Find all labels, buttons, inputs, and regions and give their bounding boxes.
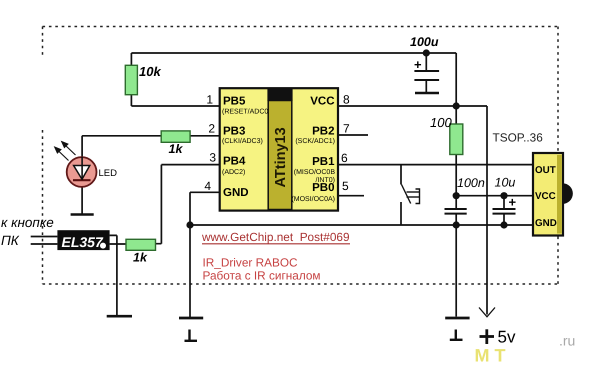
U1 center strip olive — [268, 101, 292, 210]
svg-text:6: 6 — [341, 151, 348, 165]
svg-text:IR_Driver RABOC: IR_Driver RABOC — [203, 256, 299, 270]
wire 10k bottom lead to pin1 — [131, 95, 219, 106]
svg-text:100: 100 — [430, 115, 452, 130]
svg-text:ATtiny13: ATtiny13 — [273, 127, 289, 187]
svg-text:к кнопке: к кнопке — [1, 215, 54, 230]
svg-text:100u: 100u — [410, 35, 439, 49]
svg-text:www.GetChip.net Post#069: www.GetChip.net Post#069 — [201, 230, 350, 244]
svg-text:PB1: PB1 — [312, 156, 335, 168]
U1 center strip black top — [267, 89, 292, 101]
node C3 top — [500, 192, 507, 199]
svg-text:EL357: EL357 — [62, 234, 104, 250]
resistor R1 10k — [125, 65, 137, 94]
svg-text:10k: 10k — [139, 64, 161, 79]
capacitor C1 100u plates — [414, 71, 439, 80]
IC U1 ATtiny13 body — [220, 88, 338, 210]
wire +5v drop — [486, 106, 488, 315]
wire TSOP VCC rail — [456, 195, 533, 197]
svg-text:PB4: PB4 — [223, 156, 246, 168]
U3 olive strip — [557, 155, 562, 234]
svg-text:5v: 5v — [498, 328, 516, 347]
wire VCC top rail — [131, 52, 456, 54]
wire pin8 VCC — [338, 105, 487, 107]
wire EL357 collector to 1k — [110, 243, 126, 245]
wire 100R bottom lead — [455, 155, 457, 196]
wire 100u top lead — [425, 53, 427, 93]
optocoupler U2 EL357 — [57, 230, 109, 250]
svg-text:8: 8 — [343, 93, 350, 107]
pushbutton S1 — [402, 185, 420, 204]
svg-text:PB2: PB2 — [312, 126, 334, 138]
node pin8 / 100R — [453, 102, 460, 109]
node 100R / C2 / TSOP VCC — [453, 192, 460, 199]
dashed enclosure border — [43, 27, 559, 285]
svg-text:TSOP..36: TSOP..36 — [493, 131, 544, 145]
wire 100n leads — [455, 196, 457, 225]
wire pin6 to TSOP OUT — [338, 164, 533, 166]
label +5v — [480, 329, 495, 344]
svg-text:10u: 10u — [495, 176, 516, 190]
U3 lens — [563, 183, 573, 204]
svg-text:OUT: OUT — [535, 165, 556, 176]
ground bar under 100u — [415, 92, 439, 95]
wire 10u leads — [503, 196, 505, 225]
svg-text:+: + — [509, 195, 517, 210]
svg-text:4: 4 — [204, 179, 211, 193]
svg-text:2: 2 — [208, 122, 215, 136]
resistor R2 1k (LED) — [161, 131, 190, 142]
svg-text:1: 1 — [206, 93, 213, 107]
wire switch lower lead — [400, 202, 402, 225]
wire 10k top lead — [130, 53, 132, 65]
junction node dots — [186, 49, 507, 228]
svg-text:100n: 100n — [457, 176, 485, 190]
wire 100n ground drop — [455, 225, 457, 317]
node C2 / ground bus — [453, 221, 460, 228]
svg-text:(SCK/ADC1): (SCK/ADC1) — [295, 137, 335, 145]
svg-text:ПК: ПК — [1, 233, 20, 248]
wire pin2 to LED — [82, 136, 220, 215]
svg-text:1k: 1k — [133, 251, 148, 265]
svg-text:.ru: .ru — [559, 333, 575, 349]
svg-text:LED: LED — [99, 168, 118, 179]
node pin4 / ground bus — [186, 221, 193, 228]
wire 100R top lead — [455, 106, 457, 124]
+5v supply arrow — [479, 308, 495, 317]
ground bar under LED — [71, 213, 94, 216]
wire VCC rail drop to pin8 — [455, 53, 457, 106]
svg-text:+: + — [414, 57, 422, 72]
ground symbol (C2) — [445, 318, 469, 340]
svg-text:(CLKI/ADC3): (CLKI/ADC3) — [222, 137, 263, 145]
capacitor C3 10u plates — [493, 209, 516, 214]
svg-text:5: 5 — [342, 179, 349, 193]
underline for link — [202, 243, 350, 245]
svg-text:VCC: VCC — [535, 191, 556, 202]
svg-text:(RESET/ADC0: (RESET/ADC0 — [222, 108, 268, 116]
svg-text:PB3: PB3 — [223, 126, 245, 138]
node C3 / ground bus — [500, 221, 507, 228]
IR receiver U3 TSOP body — [533, 153, 563, 236]
svg-text:(MOSI/OC0A): (MOSI/OC0A) — [291, 195, 335, 203]
LED D1 — [67, 157, 97, 187]
node top rail / C1 — [423, 49, 430, 56]
wire PK input lower — [31, 243, 58, 245]
svg-text:7: 7 — [343, 122, 350, 136]
svg-text:GND: GND — [535, 218, 557, 229]
svg-text:(ADC2): (ADC2) — [222, 168, 245, 176]
ground symbol (pin4) — [179, 318, 203, 341]
svg-text:(MISO/OC0B: (MISO/OC0B — [294, 168, 336, 176]
ground bar under EL357 — [107, 315, 132, 318]
EL357 pin dot — [100, 243, 106, 249]
wire pin3 down-corner — [156, 165, 220, 244]
svg-text:VCC: VCC — [310, 96, 334, 108]
svg-text:PB0: PB0 — [312, 182, 334, 194]
svg-text:Работа с IR сигналом: Работа с IR сигналом — [203, 269, 321, 283]
wire ground bus — [190, 224, 533, 226]
capacitor C2 100n plates — [445, 209, 467, 214]
wire pin5 stub — [338, 195, 364, 197]
wire PK input upper — [31, 236, 58, 238]
wire pin7 stub — [338, 134, 368, 136]
svg-text:1k: 1k — [169, 142, 184, 156]
LED emission arrows — [55, 142, 76, 161]
svg-text:М Т: М Т — [475, 346, 506, 366]
wire switch upper lead — [400, 165, 402, 185]
svg-text:GND: GND — [223, 187, 249, 199]
svg-text:3: 3 — [209, 151, 216, 165]
svg-text:PB5: PB5 — [223, 96, 246, 108]
resistor R3 1k (optocoupler) — [126, 239, 156, 250]
wire EL357 emitter to ground — [110, 235, 117, 316]
resistor R4 100 — [450, 124, 463, 155]
wire pin4 to ground — [190, 192, 220, 318]
